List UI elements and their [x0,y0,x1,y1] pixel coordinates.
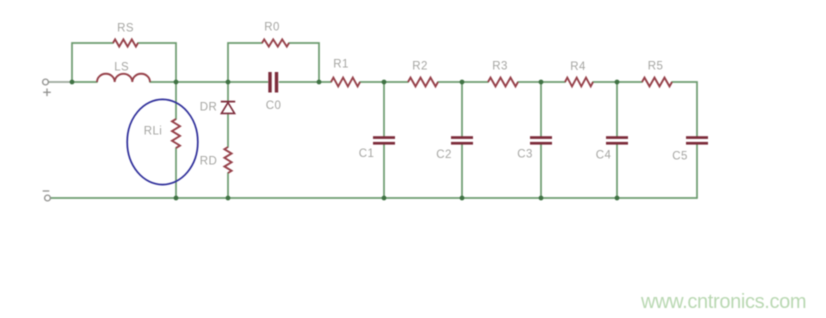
wire [593,81,642,83]
highlight ellipse around RLi [127,99,198,184]
svg-text:RS: RS [117,23,134,35]
wire [672,82,697,136]
wire [227,173,229,198]
diode DR [221,102,235,114]
capacitor C1 [373,136,395,144]
wire [289,43,319,82]
resistor R2 [408,78,438,87]
wire [461,145,463,198]
node junction (72,82) [70,80,75,85]
wire [438,81,488,83]
node junction (176,198) [174,196,179,201]
resistor R1 [331,78,360,87]
node junction (462,198) [460,196,465,201]
inductor LS [97,74,150,82]
svg-text:C0: C0 [266,100,282,112]
terminal - [43,191,51,201]
wire [696,145,698,198]
wire [72,43,113,82]
capacitor C4 [606,136,628,144]
wire [138,43,176,82]
svg-text:C2: C2 [436,149,452,161]
terminal + [43,79,51,96]
svg-text:C1: C1 [359,148,375,160]
resistor R5 [642,78,672,87]
resistor R0 [262,39,289,46]
resistor RLi [172,119,180,148]
node junction (384,82) [382,80,387,85]
node junction (617,82) [615,80,620,85]
node junction (384,198) [382,196,387,201]
wire [280,81,320,83]
wire [383,82,385,136]
wire [49,81,73,83]
node junction (228,82) [226,80,231,85]
resistor RS [113,39,138,46]
svg-text:R1: R1 [333,59,349,71]
wire [227,114,229,148]
svg-text:LS: LS [114,62,129,74]
node junction (228,198) [226,196,231,201]
svg-text:DR: DR [200,102,217,114]
svg-text:RD: RD [200,156,217,168]
resistor R3 [488,78,518,87]
capacitor C2 [451,136,473,144]
node junction (319,82) [317,80,322,85]
wire [616,145,618,198]
wire [228,43,262,82]
svg-text:R0: R0 [264,22,280,34]
svg-text:R3: R3 [492,61,508,73]
wire [383,145,385,198]
svg-text:R5: R5 [648,61,664,73]
node junction (176,82) [174,80,179,85]
wire [461,82,463,136]
wire [175,148,177,198]
wire [228,81,268,83]
svg-text:R4: R4 [570,61,586,73]
svg-text:www.cntronics.com: www.cntronics.com [640,291,806,313]
wire [360,81,408,83]
wire [518,81,565,83]
svg-text:RLi: RLi [144,126,162,138]
wire [72,81,97,83]
wire [540,145,542,198]
svg-text:R2: R2 [412,61,428,73]
wire RLi branch [175,82,177,119]
wire [540,82,542,136]
wire DR branch [227,82,229,101]
node junction (462,82) [460,80,465,85]
node junction (541,82) [539,80,544,85]
capacitor C5 [686,136,708,144]
capacitor C0 [268,72,278,93]
svg-text:C5: C5 [672,151,688,163]
svg-text:C4: C4 [596,150,612,162]
wire [616,82,618,136]
wire [150,81,228,83]
wire bottom rail [51,197,698,199]
node junction (617,198) [615,196,620,201]
svg-text:C3: C3 [517,149,533,161]
resistor RD [224,147,231,173]
capacitor C3 [530,136,552,144]
resistor R4 [565,78,593,87]
node junction (541,198) [539,196,544,201]
wire [319,81,331,83]
